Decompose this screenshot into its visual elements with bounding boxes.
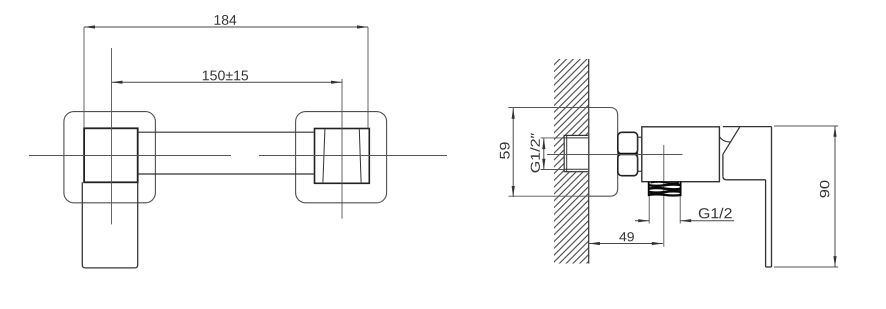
outlet housing right (front view) [315,129,370,184]
outlet vertical centerline [663,145,665,247]
wall hatching (side view) [554,59,589,264]
handle blade bottom edge [766,266,772,268]
dimension 59 extension line top [508,107,588,109]
arrowhead 90 top [833,126,836,137]
arrowhead G1/2" top [542,138,545,149]
hex nut lower face [618,154,638,176]
outlet taper line right [359,129,361,182]
outlet thread right edge [680,182,682,197]
valve body (side view) [642,127,720,182]
arrowhead 49 right [652,242,663,245]
pipe end face line [566,135,568,171]
outlet thread crest 3 [649,188,681,189]
connecting bar bottom edge [138,173,315,175]
arrowhead 59 bottom [512,186,515,197]
svg-text:G1/2: G1/2 [698,206,732,222]
horizontal centerline side view [547,154,683,156]
arrowhead 90 bottom [833,256,836,267]
dimension 184 extension line left [83,27,85,128]
arrowhead 150 left [112,81,123,84]
dimension line G1/2" [543,138,545,170]
dimension 59 extension line bottom [508,195,588,197]
outlet thread extension line left [648,196,650,223]
dimension line G1/2 right segment [680,220,734,222]
outlet thread crest 4 [649,191,681,192]
outlet thread crest 2 [649,184,681,185]
vertical centerline right unit [341,79,343,219]
svg-text:150±15: 150±15 [202,67,249,83]
dimension line G1/2 left segment [635,220,649,222]
escutcheon plate left (front view) [64,112,155,203]
inlet pipe nipple behind wall [564,135,589,171]
hex nut mid edge [618,153,638,155]
handle pivot arc [720,137,732,142]
arrowhead G1/2" bottom [542,159,545,170]
connecting bar top edge [138,131,315,133]
arrowhead 184 right [357,25,368,28]
dimension 184 extension line right [367,27,369,129]
pipe thread crest line bottom [564,168,589,170]
dimension line 49 [589,243,663,245]
handle neck front edge [722,154,724,176]
horizontal centerline front view [29,155,231,157]
outlet thread crest 5 [649,194,681,195]
dimension line 90 [834,126,836,267]
arrowhead 49 left [589,242,600,245]
svg-text:184: 184 [213,12,236,28]
escutcheon plate (side view) [589,108,618,197]
pipe thread crest line top [564,137,589,139]
hex nut upper face [618,132,638,154]
arrowhead 150 right [331,81,342,84]
handle top edge (side view) [723,126,772,128]
arrowhead G1/2 left [638,219,649,222]
valve body left (front view) [84,128,138,182]
dimension G1/2" extension line bottom [541,169,565,171]
wall face line [588,59,590,264]
arrowhead 184 left [84,25,95,28]
svg-text:59: 59 [496,141,512,159]
arrowhead 59 top [512,108,515,119]
svg-text:90: 90 [817,180,832,198]
lever handle (front view) [82,182,137,268]
vertical centerline left unit [111,48,113,224]
dimension line 150±15 [112,81,343,83]
arrowhead G1/2 right [680,219,691,222]
dimension G1/2" extension line top [541,137,565,139]
svg-text:49: 49 [619,229,635,244]
outlet thread extension line right [679,196,681,223]
dimension 90 extension line bottom [774,266,838,268]
handle arm underside [726,179,765,181]
dimension line 184 [84,26,368,28]
dimension line 59 [512,108,514,197]
handle blade left edge [765,180,767,267]
handle neck corner arc [723,176,726,180]
outlet taper line left [323,129,325,182]
outlet thread crest 1 [651,182,679,183]
outlet thread left edge [648,182,650,197]
svg-text:G1/2″: G1/2″ [528,132,543,173]
handle tilt diagonal [723,127,740,154]
escutcheon plate right (front view) [296,112,387,203]
collar between nut and body [638,137,642,171]
handle blade right edge [771,127,773,267]
dimension 90 extension line top [774,125,838,127]
